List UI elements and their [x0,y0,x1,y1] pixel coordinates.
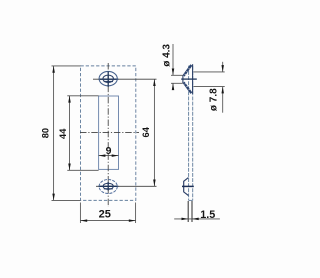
svg-text:1.5: 1.5 [200,209,215,221]
svg-text:64: 64 [141,126,151,137]
svg-text:ø 4.3: ø 4.3 [162,44,173,67]
svg-text:9: 9 [106,145,112,157]
svg-text:ø 7.8: ø 7.8 [208,88,219,111]
svg-text:25: 25 [99,208,111,220]
svg-text:80: 80 [41,128,51,138]
svg-text:44: 44 [58,128,68,139]
